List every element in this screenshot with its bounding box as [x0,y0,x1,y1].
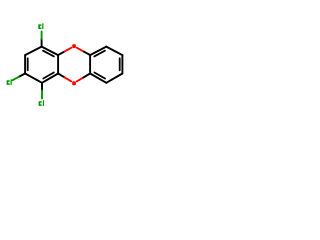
bond A-B double inner [43,51,54,57]
bond L-K double main (lower-left to bottom, right ring) [90,74,106,83]
background [0,0,130,130]
bond L-K double inner [94,73,105,79]
bond A-F single (top vertex to upper-left, left ring) [25,47,41,56]
atom O2 bottom oxygen label [72,81,76,85]
bond D-Cl3 green half [41,91,43,99]
bond C-O2 black half (carbon to bottom oxygen) [58,74,65,78]
atom Cl1 top chlorine label: l glyph [42,23,43,29]
bond O1-G red half (top oxygen to right ring) [77,48,84,52]
atom O1 top oxygen label [72,44,76,48]
bond C-D double inner [43,73,54,79]
atom Cl1 top chlorine label: C glyph [38,24,41,29]
bond A-Cl1 black half (top chlorine) [41,39,43,47]
atom Cl2 left chlorine label: C glyph [7,80,10,85]
bond I-J double main (right vertical edge, right ring) [121,55,123,73]
bond E-Cl2 green half [12,77,18,80]
bond G-H double main (upper-left to top, right ring) [90,47,106,56]
bond F-E double inner [27,58,29,70]
bond B-C single (right vertical edge, left ring, shared with central ring) [57,55,59,73]
bond F-E double main (left vertical edge, left ring) [24,55,26,73]
bond G-H double inner [94,51,105,57]
bond G-L single (left vertical edge, right ring, shared with central ring) [89,55,91,73]
bond H-I single (top to upper-right, right ring) [106,47,122,56]
bond A-B double main (top vertex to upper-right, left ring) [42,47,59,56]
bond A-Cl1 green half [41,31,43,38]
bond B-O1 red half [65,48,72,52]
bond O2-L red half (bottom oxygen to right ring) [77,77,84,81]
atom Cl3 bottom chlorine label: l glyph [43,100,44,106]
bond D-Cl3 black half (bottom chlorine) [41,83,43,91]
bond O1-G black half [84,52,90,55]
bond O2-L black half [84,74,91,78]
bond J-K single (lower-right to bottom, right ring) [106,74,122,83]
atom Cl2 left chlorine label: l glyph [11,79,12,85]
bond C-D double main (lower-right to bottom, left ring) [42,74,58,83]
bond B-O1 black half (carbon to top oxygen) [58,51,65,55]
bond I-J double inner [119,58,121,70]
bond C-O2 red half [65,77,72,81]
bond E-Cl2 black half (left chlorine) [19,74,25,77]
atom Cl3 bottom chlorine label: C glyph [39,101,42,106]
bond E-D single (lower-left to bottom, left ring) [25,74,42,83]
